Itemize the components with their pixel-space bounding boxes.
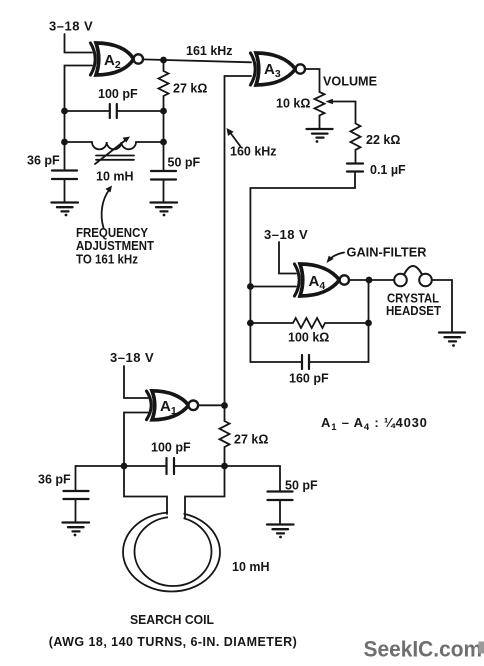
wiper arrow of pot bbox=[331, 101, 356, 103]
svg-text:HEADSET: HEADSET bbox=[386, 304, 441, 318]
node dot A4 output bbox=[366, 277, 373, 284]
wire A4 output to headset bbox=[349, 279, 394, 281]
wire coil left lead bbox=[124, 466, 167, 514]
ground (36 pF A1) bbox=[63, 523, 90, 537]
node dots on 100pF wire bbox=[61, 108, 68, 115]
capacitor 50 pF (A2) bbox=[151, 171, 176, 203]
search coil (10 mH loop) bbox=[123, 503, 220, 592]
label FREQUENCY ADJUSTMENT TO 161 kHz bbox=[76, 225, 154, 267]
svg-text:27 kΩ: 27 kΩ bbox=[234, 433, 268, 447]
capacitor 0.1 uF bbox=[250, 164, 363, 363]
capacitor 36 pF (A2) bbox=[52, 171, 77, 203]
svg-text:3–18 V: 3–18 V bbox=[110, 350, 154, 365]
gate A1 (XOR 4030) bbox=[147, 391, 199, 420]
node dot A1 output bbox=[221, 402, 228, 409]
node dots on inductor wire bbox=[61, 139, 68, 146]
svg-text:36 pF: 36 pF bbox=[38, 473, 71, 487]
svg-text:SeekIC.com: SeekIC.com bbox=[364, 636, 483, 662]
crystal headset symbol bbox=[394, 266, 432, 286]
svg-text:100 pF: 100 pF bbox=[98, 87, 138, 101]
node dot 100k right bbox=[365, 320, 372, 327]
ground (36 pF A2) bbox=[52, 203, 79, 217]
inductor 10 mH variable bbox=[65, 137, 164, 165]
wire supply to A2 top input bbox=[65, 34, 93, 53]
svg-text:0.1 µF: 0.1 µF bbox=[370, 163, 406, 177]
svg-text:160 kHz: 160 kHz bbox=[230, 145, 277, 159]
resistor 27 kOhm (A1) bbox=[220, 421, 230, 466]
svg-text:(AWG 18, 140 TURNS, 6-IN. DIAM: (AWG 18, 140 TURNS, 6-IN. DIAMETER) bbox=[49, 635, 297, 649]
svg-text:GAIN-FILTER: GAIN-FILTER bbox=[347, 246, 427, 260]
gate A3 (XOR 4030) bbox=[251, 53, 305, 85]
gate A4 (XOR 4030) bbox=[295, 264, 349, 296]
svg-text:160 pF: 160 pF bbox=[289, 372, 329, 386]
svg-text:27 kΩ: 27 kΩ bbox=[173, 82, 207, 96]
capacitor 100 pF (A2) bbox=[65, 104, 164, 118]
svg-text:50 pF: 50 pF bbox=[168, 156, 201, 170]
wire A3 bottom input from 160 kHz line bbox=[225, 75, 252, 77]
resistor 27 kOhm (A2) bbox=[159, 60, 169, 171]
svg-text:100 kΩ: 100 kΩ bbox=[288, 331, 329, 345]
svg-text:22 kΩ: 22 kΩ bbox=[366, 133, 400, 147]
wire coil right lead bbox=[185, 466, 225, 518]
wire headset to ground bbox=[432, 280, 452, 333]
svg-text:10 kΩ: 10 kΩ bbox=[276, 97, 310, 111]
ground (50 pF A1) bbox=[267, 525, 294, 539]
svg-text:100 pF: 100 pF bbox=[151, 441, 191, 455]
wire (long 160 kHz vertical) bbox=[224, 76, 226, 421]
capacitor 36 pF (A1) bbox=[64, 466, 89, 523]
node junction A2 output bbox=[160, 57, 167, 64]
svg-text:161 kHz: 161 kHz bbox=[186, 44, 233, 58]
arrow gain-filter bbox=[330, 253, 345, 260]
svg-text:10 mH: 10 mH bbox=[232, 560, 270, 574]
svg-text:3–18 V: 3–18 V bbox=[49, 19, 93, 34]
wire A1 bottom input feedback bbox=[124, 413, 148, 467]
svg-text:VOLUME: VOLUME bbox=[323, 75, 377, 89]
svg-text:TO 161 kHz: TO 161 kHz bbox=[76, 252, 138, 267]
ground (headset) bbox=[439, 333, 465, 347]
wire A2 output to A3 bbox=[143, 59, 251, 62]
capacitor 100 pF (A1) bbox=[76, 458, 281, 474]
resistor 22 kOhm bbox=[351, 102, 361, 164]
gate A2 (XOR 4030) bbox=[91, 43, 144, 75]
wire supply to A4 top input bbox=[279, 242, 296, 274]
capacitor 50 pF (A1) bbox=[268, 466, 293, 525]
node dots on tank wire bbox=[121, 463, 128, 470]
resistor 100 kOhm feedback bbox=[250, 318, 368, 328]
wire A3 output to volume pot bbox=[305, 69, 320, 92]
wire A4 bottom input bbox=[250, 286, 296, 288]
potentiometer 10 kOhm bbox=[315, 92, 325, 129]
svg-text:3–18 V: 3–18 V bbox=[264, 227, 308, 242]
node dot 100k left bbox=[247, 320, 254, 327]
ground (pot) bbox=[307, 129, 333, 143]
wire A1 output bbox=[198, 404, 224, 406]
node dot A4 input bbox=[247, 283, 254, 290]
wire A2 bottom input feedback bbox=[65, 66, 93, 171]
svg-text:10 mH: 10 mH bbox=[96, 170, 134, 184]
arrow frequency adjustment bbox=[102, 190, 110, 229]
capacitor 160 pF feedback bbox=[250, 355, 368, 369]
svg-text:SEARCH COIL: SEARCH COIL bbox=[130, 613, 214, 627]
wire supply to A1 top input bbox=[124, 366, 148, 398]
label CRYSTAL HEADSET bbox=[386, 292, 441, 319]
arrow 160 kHz pointing to wire bbox=[231, 133, 241, 147]
ground (50 pF A2) bbox=[151, 203, 178, 217]
wire feedback right vertical bbox=[368, 280, 370, 362]
svg-text:36 pF: 36 pF bbox=[27, 154, 60, 168]
